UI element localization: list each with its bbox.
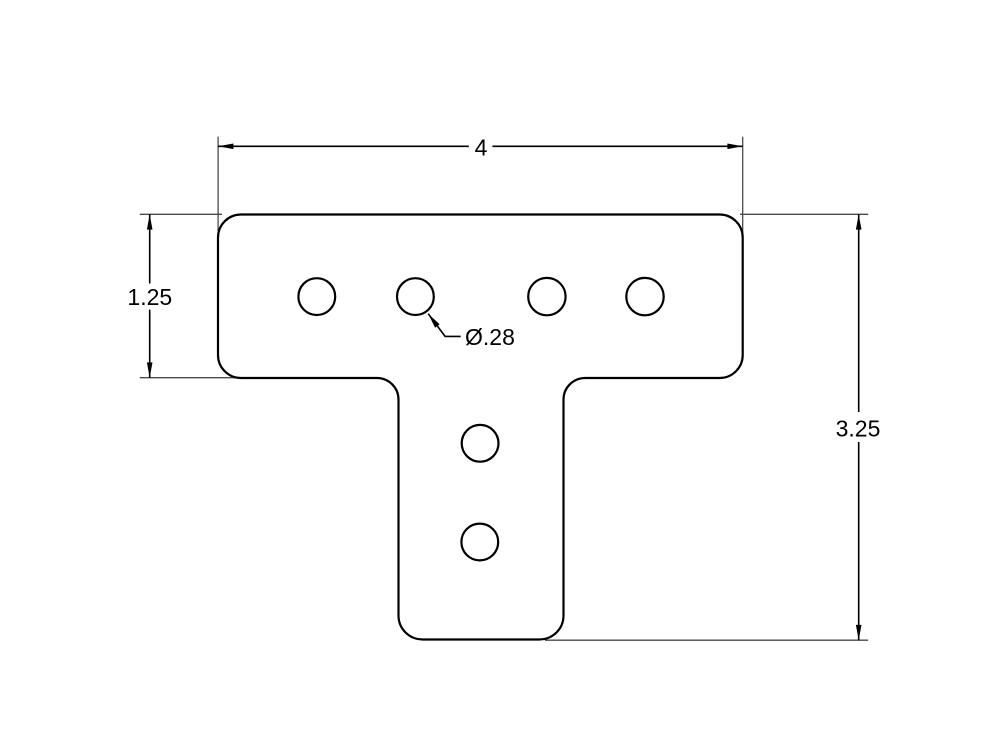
extension line bottom-left horizontal (1.25 dim, bottom)	[140, 377, 250, 379]
extension line top-left horizontal (1.25 dim, top)	[140, 213, 222, 215]
hole H3 (bar, inner right)	[528, 278, 565, 315]
hole H6 (stem, lower)	[461, 524, 498, 561]
arrowhead 3.25 down	[856, 625, 862, 640]
arrowhead 1.25 down	[147, 362, 153, 377]
part outline (T-shaped plate)	[218, 215, 743, 640]
dimension line 1.25 (vertical, two segments)	[149, 214, 151, 283]
hole H4 (bar, far right)	[626, 278, 663, 315]
extension line bottom-right horizontal (3.25 dim, bottom)	[545, 639, 868, 641]
hole H5 (stem, upper)	[462, 425, 499, 462]
extension line left vertical (4 dim, left)	[217, 137, 219, 231]
svg-text:1.25: 1.25	[127, 284, 172, 310]
svg-text:4: 4	[475, 134, 488, 160]
arrowhead 1.25 up	[147, 214, 153, 229]
svg-text:3.25: 3.25	[836, 416, 881, 442]
arrowhead 4 right	[727, 144, 742, 150]
hole H2 (bar, inner left)	[397, 278, 434, 315]
arrowhead 4 left	[218, 144, 233, 150]
leader arrowhead	[428, 314, 439, 328]
leader line for hole diameter	[428, 314, 461, 337]
svg-text:Ø.28: Ø.28	[465, 324, 515, 350]
dimension line 3.25 (vertical, two segments)	[858, 214, 860, 412]
extension line right vertical (4 dim, right)	[742, 137, 744, 237]
hole H1 (bar, far left)	[298, 278, 335, 315]
extension line top-right horizontal (3.25 dim, top)	[740, 213, 868, 215]
arrowhead 3.25 up	[856, 214, 862, 229]
dimension line 4 (horizontal, two segments)	[218, 145, 469, 147]
